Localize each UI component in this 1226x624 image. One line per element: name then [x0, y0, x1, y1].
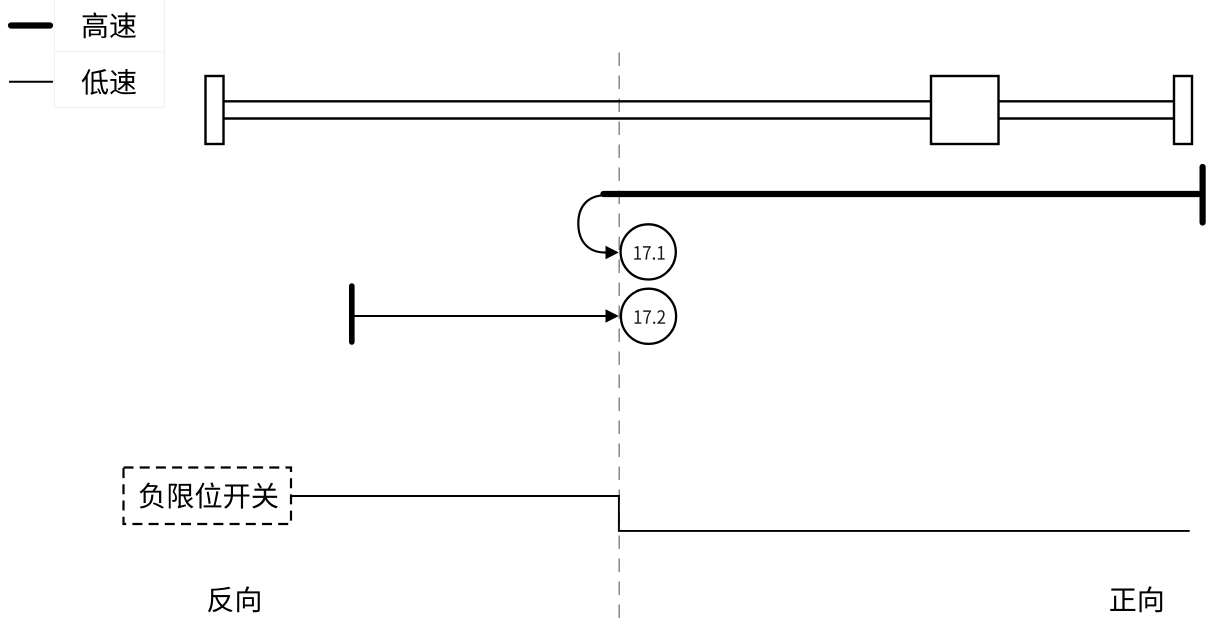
rail left end bracket — [206, 76, 224, 144]
legend table faint borders — [55, 0, 165, 108]
u-turn arrowhead — [606, 246, 619, 260]
label 负限位开关 — [140, 483, 164, 509]
high-speed motion line (thick, moving left) — [604, 191, 1201, 197]
legend low-speed thin line sample — [9, 81, 53, 83]
low-speed motion arrow line into 17.2 — [352, 315, 607, 317]
label 正向 — [1110, 589, 1135, 611]
carriage block on rail — [931, 76, 999, 144]
rail right end bracket — [1174, 76, 1192, 144]
u-turn deceleration arrow into 17.1 — [578, 195, 607, 252]
label 17.1 — [634, 246, 641, 259]
dashed reference line (home/switch position) — [618, 53, 620, 624]
legend high-speed thick line sample — [11, 22, 50, 28]
axis rail bottom line — [222, 117, 1176, 119]
low-speed arrowhead — [606, 309, 619, 323]
legend label 低速 — [82, 69, 108, 95]
right stop bar of high-speed line — [1199, 167, 1205, 223]
negative limit switch dashed box — [124, 468, 292, 525]
label 反向 — [208, 587, 233, 613]
axis rail top line — [222, 100, 1176, 102]
label 17.2 — [634, 310, 641, 323]
start point 17.2 circle — [621, 289, 676, 344]
legend label 高速 — [83, 12, 108, 38]
limit switch signal waveform — [292, 496, 1190, 531]
low-speed start bar (17.2 origin) — [349, 286, 355, 342]
start point 17.1 circle — [621, 224, 676, 279]
